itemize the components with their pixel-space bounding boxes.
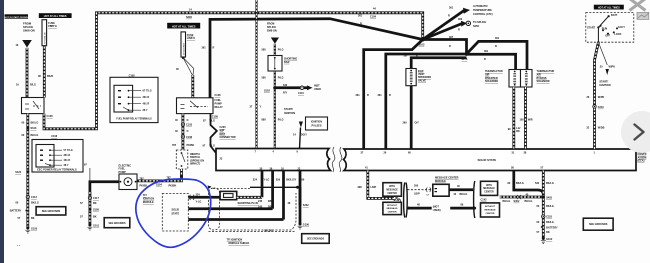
thumbnail icon: [637, 12, 649, 19]
svg-text:787: 787: [172, 144, 177, 147]
svg-text:C117: C117: [93, 197, 99, 200]
IGNITION PULSES box with arrow: [293, 117, 328, 149]
wire 37 Y from top edge to bar: [250, 0, 262, 149]
svg-text:ACCY: ACCY: [618, 26, 625, 29]
WITH MESSAGE CENTER box (left): [383, 183, 402, 197]
thermactor wires to ECA: [508, 87, 533, 149]
svg-text:324: 324: [196, 193, 201, 196]
TFI stub 3: [188, 220, 283, 233]
svg-text:DG/Y: DG/Y: [301, 134, 307, 137]
svg-text:C118: C118: [546, 216, 552, 219]
module output 10 BK/LG: [449, 181, 475, 218]
svg-text:R: R: [495, 45, 497, 48]
svg-text:BK: BK: [31, 217, 35, 220]
fuse link K: [176, 32, 195, 98]
left sidebar strip: [0, 0, 4, 263]
svg-text:361: 361: [484, 50, 489, 53]
svg-text:580: 580: [262, 77, 267, 80]
svg-text:USED: USED: [314, 88, 321, 91]
svg-text:BK: BK: [516, 130, 520, 133]
TFI ignition module: [143, 194, 188, 232]
svg-text:HOT AT ALL TIMES: HOT AT ALL TIMES: [172, 24, 196, 28]
svg-text:BK/LG: BK/LG: [525, 200, 533, 203]
svg-text:STATE: STATE: [171, 213, 179, 216]
thermactor air bypass solenoid: [521, 70, 555, 88]
electric fuel pump: [119, 164, 138, 189]
ECA output 80 BK/LG (elbow): [508, 171, 544, 197]
svg-text:PUMP: PUMP: [215, 103, 223, 106]
svg-text:245: 245: [258, 200, 263, 203]
svg-text:38 Y: 38 Y: [64, 164, 69, 167]
svg-text:640: 640: [283, 84, 288, 87]
svg-text:P/LG: P/LG: [278, 48, 284, 51]
svg-text:206: 206: [414, 185, 419, 188]
svg-text:S402: S402: [514, 200, 520, 203]
svg-text:BK/LG: BK/LG: [460, 193, 468, 196]
svg-text:BK/LG: BK/LG: [31, 122, 39, 125]
svg-text:CENTER: CENTER: [387, 193, 397, 195]
svg-text:SEE GROUNDS: SEE GROUNDS: [109, 223, 126, 225]
svg-text:880: 880: [262, 119, 267, 122]
svg-text:T/LG: T/LG: [209, 120, 215, 123]
svg-text:S108: S108: [93, 208, 99, 211]
ground chain G106: [288, 187, 310, 229]
battery ground chain 60 BK/LG (left): [10, 114, 39, 233]
svg-text:PK/BK: PK/BK: [187, 144, 195, 147]
svg-text:SOLENOID: SOLENOID: [485, 80, 498, 83]
svg-text:S262: S262: [303, 204, 309, 207]
svg-text:LB/P: LB/P: [414, 193, 420, 196]
svg-text:VALVE: VALVE: [418, 79, 426, 82]
svg-text:Y-LG: Y-LG: [264, 179, 270, 182]
connector triangle C: [22, 40, 32, 48]
svg-text:361: 361: [378, 94, 383, 97]
svg-text:SOLID: SOLID: [171, 209, 179, 212]
SEE GROUNDS box 2: [104, 218, 130, 228]
SEE GROUNDS box 1: [36, 207, 66, 215]
svg-text:P/LG: P/LG: [278, 119, 284, 122]
svg-text:W/DB: W/DB: [598, 127, 605, 130]
wire 16 R/LG (triangle to relay): [16, 44, 37, 97]
svg-text:398: 398: [358, 186, 363, 189]
svg-text:WITHOUT: WITHOUT: [485, 206, 496, 208]
svg-text:C108: C108: [47, 115, 54, 118]
svg-text:BATTERY: BATTERY: [546, 226, 558, 229]
svg-text:TFI IGNITION: TFI IGNITION: [227, 239, 243, 242]
thermactor air diverter solenoid: [485, 70, 521, 88]
svg-text:100: 100: [520, 119, 525, 122]
svg-text:LINK O: LINK O: [48, 25, 57, 28]
relay output 40 O (to inertia switch): [172, 114, 194, 150]
svg-text:O/Y: O/Y: [415, 122, 420, 125]
svg-text:367: 367: [449, 36, 454, 39]
svg-text:S102: S102: [264, 90, 270, 93]
svg-text:363: 363: [458, 18, 463, 21]
ignition feed wire W/PK: [587, 27, 616, 149]
svg-text:BATT: BATT: [611, 14, 618, 17]
svg-text:R/Y: R/Y: [283, 92, 288, 95]
close X button: [630, 0, 646, 11]
svg-text:461 R: 461 R: [143, 103, 150, 106]
relay output 87/97 T/LG to module bar: [203, 114, 236, 153]
svg-text:BK/LG: BK/LG: [546, 205, 554, 208]
svg-text:S206: S206: [186, 16, 192, 19]
fuse link O (vertical box with text): [42, 20, 57, 48]
svg-text:SEE GROUNDS: SEE GROUNDS: [307, 239, 324, 241]
label box HOT AT ALL TIMES (middle): [167, 23, 200, 29]
splice dot S123: [26, 170, 29, 173]
svg-text:S403: S403: [546, 196, 552, 199]
svg-text:T/LG: T/LG: [209, 144, 215, 147]
svg-text:245: 245: [258, 206, 263, 209]
svg-text:361: 361: [202, 47, 207, 50]
svg-text:PK/BK: PK/BK: [169, 184, 177, 187]
NOT USED stub with ring C110: [275, 84, 321, 95]
svg-text:R: R: [389, 94, 391, 97]
svg-text:361: 361: [358, 15, 363, 18]
svg-text:361 R: 361 R: [64, 154, 71, 157]
ignition switch dashed box: [586, 13, 634, 43]
svg-text:MESSAGE: MESSAGE: [386, 188, 398, 191]
svg-text:G100: G100: [31, 228, 38, 231]
inertia switch: [176, 150, 204, 169]
svg-text:BK: BK: [546, 231, 550, 234]
svg-text:57 T/LG: 57 T/LG: [64, 149, 73, 152]
EEC power relay box: [22, 98, 54, 119]
SEE GROUNDS box 3: [302, 234, 330, 244]
svg-text:PULSES: PULSES: [311, 124, 321, 127]
junction S103: [419, 38, 425, 47]
ECA processor box: [344, 149, 637, 171]
svg-text:C184: C184: [370, 16, 377, 19]
svg-text:361: 361: [356, 94, 361, 97]
wire 38 BK/O (fuse link O to relay): [38, 47, 53, 98]
svg-text:532: 532: [535, 182, 540, 185]
svg-text:SEE GROUNDS: SEE GROUNDS: [42, 210, 61, 213]
svg-text:S123: S123: [15, 171, 21, 174]
svg-text:SOLID STATE: SOLID STATE: [478, 158, 497, 162]
svg-text:359: 359: [276, 179, 281, 182]
svg-text:WITH: WITH: [486, 185, 492, 187]
svg-text:SEE GROUNDS: SEE GROUNDS: [589, 223, 608, 226]
svg-text:R: R: [360, 23, 362, 26]
shorting bar chain 580 P/LG: [262, 44, 298, 149]
svg-text:LINK K: LINK K: [187, 37, 196, 40]
svg-text:MESSAGE: MESSAGE: [387, 207, 398, 210]
S273 branch: [423, 36, 469, 61]
svg-text:WITHOUT: WITHOUT: [387, 205, 398, 207]
svg-text:G102: G102: [546, 238, 553, 241]
svg-text:BATTERY: BATTERY: [10, 210, 22, 213]
ground G100: [26, 227, 29, 230]
svg-text:CENTER: CENTER: [486, 213, 495, 215]
detail box C108 FUEL PUMP RELAY TERMINALS: [110, 75, 158, 123]
svg-text:R: R: [213, 47, 215, 50]
detail box C108 EEC POWER RELAY TERMINALS: [32, 135, 83, 172]
svg-text:20 GA BLUE: 20 GA BLUE: [44, 32, 47, 45]
svg-text:O: O: [187, 119, 189, 122]
svg-text:W/PK: W/PK: [609, 66, 616, 69]
svg-text:C103: C103: [186, 124, 193, 127]
arrow to AUTOMATIC TEMPERATURE CONTROL: [423, 5, 493, 39]
svg-text:S606-ON: S606-ON: [23, 29, 35, 33]
WITHOUT MESSAGE CENTER box (right): [481, 203, 500, 217]
next arrow circle button: [621, 111, 650, 153]
svg-text:BK/LG: BK/LG: [31, 202, 39, 205]
svg-text:CONNECTOR: CONNECTOR: [220, 136, 236, 139]
EGR vent solenoid valve: [403, 55, 467, 150]
battery ground chain right 532 BK/LG: [535, 171, 558, 244]
svg-text:CONTROL (ATC): CONTROL (ATC): [473, 13, 493, 16]
svg-text:361: 361: [495, 37, 500, 40]
svg-text:C108: C108: [51, 135, 58, 138]
shorting plug run (TFI pin 1): [188, 191, 272, 205]
TFI shield dashed: [208, 186, 300, 246]
svg-text:FUEL: FUEL: [215, 99, 222, 102]
svg-text:WITH: WITH: [389, 186, 395, 188]
blue pen annotation loop: [136, 179, 211, 247]
svg-text:MODULE SHIELD: MODULE SHIELD: [229, 242, 250, 245]
SEE GROUNDS box 4: [583, 218, 613, 230]
svg-text:R/LG: R/LG: [30, 84, 36, 87]
svg-text:MODULE: MODULE: [435, 180, 446, 183]
pump ground chain G101: [80, 164, 119, 231]
processor bar left segment: [216, 149, 331, 171]
fuel pump relay box: [177, 94, 224, 114]
svg-text:DB: DB: [268, 200, 272, 203]
svg-text:CENTER: CENTER: [388, 211, 397, 213]
svg-text:97 T/LG: 97 T/LG: [143, 90, 152, 93]
svg-text:16 GA GREY: 16 GA GREY: [183, 42, 186, 55]
svg-text:BK: BK: [93, 216, 97, 219]
svg-text:BAR: BAR: [284, 61, 290, 64]
svg-text:SOLENOID: SOLENOID: [537, 80, 550, 83]
svg-text:SHORTING PLUG: SHORTING PLUG: [238, 202, 259, 205]
svg-text:START/: START/: [284, 108, 293, 111]
svg-text:R: R: [449, 45, 451, 48]
svg-text:MESSAGE: MESSAGE: [483, 187, 495, 190]
S402 ground row: [500, 195, 544, 203]
svg-text:O: O: [187, 130, 189, 133]
FROM SPLICE EM8-ON triangle: [267, 23, 279, 44]
svg-text:580: 580: [262, 48, 267, 51]
svg-text:HOT AT ALL TIMES: HOT AT ALL TIMES: [598, 7, 620, 10]
svg-text:S104: S104: [156, 184, 162, 187]
tiny pen dots bottom left: [17, 245, 20, 246]
svg-text:RUN: RUN: [602, 28, 608, 31]
svg-text:BK: BK: [93, 202, 97, 205]
pin wires 30/36/16/22 below bar: [253, 171, 305, 220]
svg-text:EM8-ON: EM8-ON: [267, 29, 277, 32]
svg-text:361: 361: [449, 7, 454, 10]
splice dot S616: [26, 127, 29, 130]
wire inertia to pump 787 PK/BK: [137, 169, 183, 187]
svg-text:BK/LG: BK/LG: [31, 134, 39, 137]
label box HOT AT ALL TIMES (right): [594, 5, 624, 10]
svg-text:START: START: [587, 26, 596, 29]
svg-text:HOT AT ALL TIMES: HOT AT ALL TIMES: [44, 15, 67, 18]
svg-text:BK/LG/Y: BK/LG/Y: [286, 179, 296, 182]
svg-text:BK/LG: BK/LG: [546, 182, 554, 185]
svg-text:LOCK: LOCK: [614, 33, 621, 36]
NOT USED row: [407, 204, 476, 213]
svg-text:G101: G101: [93, 225, 100, 228]
svg-text:461 R: 461 R: [64, 159, 71, 162]
svg-text:HOT IN START OR RUN: HOT IN START OR RUN: [5, 16, 29, 19]
svg-text:BK/LG: BK/LG: [546, 221, 554, 224]
svg-text:(NOT: (NOT: [433, 206, 440, 209]
svg-text:C113: C113: [31, 196, 37, 199]
svg-text:W/PK: W/PK: [598, 96, 605, 99]
label box HOT IN START OR RUN: [5, 14, 29, 18]
svg-text:DB: DB: [268, 206, 272, 209]
svg-text:PUMP: PUMP: [119, 171, 127, 174]
ECA feed wires A and B (361 R): [356, 40, 467, 150]
svg-text:Y-LG: Y-LG: [196, 200, 202, 203]
svg-text:BK/LG: BK/LG: [516, 182, 524, 185]
dashed link 206 LB/P to module: [408, 185, 433, 197]
svg-text:S258: S258: [473, 25, 479, 28]
svg-text:P/LG: P/LG: [278, 77, 284, 80]
inline connector halves: [404, 183, 408, 218]
svg-text:OFF: OFF: [605, 35, 610, 38]
svg-text:(ECA): (ECA): [638, 160, 645, 163]
wire 398 LB/P from ECA to message center boxes: [358, 171, 401, 203]
wavy break: [332, 147, 342, 172]
svg-text:R: R: [448, 15, 450, 18]
svg-text:AUTOMATIC: AUTOMATIC: [473, 5, 488, 8]
WITHOUT MESSAGE CENTER box (left): [383, 199, 402, 215]
svg-text:BK/O: BK/O: [47, 75, 53, 78]
svg-text:W/R: W/R: [528, 119, 533, 122]
WITH MESSAGE CENTER box (right): [481, 181, 498, 201]
svg-text:LB/P: LB/P: [371, 186, 377, 189]
svg-text:CENTER: CENTER: [484, 192, 494, 194]
svg-text:38 Y: 38 Y: [143, 109, 148, 112]
label box HOT AT ALL TIMES (left): [39, 13, 72, 18]
thermactor feed wires: [467, 37, 528, 69]
svg-text:IMPACT): IMPACT): [190, 163, 200, 166]
svg-text:RELAY: RELAY: [215, 106, 224, 109]
svg-text:BK/LG: BK/LG: [503, 200, 511, 203]
svg-text:787: 787: [140, 177, 145, 180]
ECA side text: [638, 150, 647, 163]
svg-text:FUEL PUMP RELAY TERMINALS: FUEL PUMP RELAY TERMINALS: [116, 118, 152, 121]
svg-text:G106: G106: [303, 224, 310, 227]
svg-text:C108: C108: [212, 115, 219, 118]
svg-text:TEMPERATURE: TEMPERATURE: [473, 9, 492, 12]
svg-text:C110: C110: [298, 92, 304, 95]
svg-text:TO SPLICE: TO SPLICE: [473, 21, 486, 24]
svg-text:IGNITION: IGNITION: [599, 84, 610, 87]
big loop hatched wire (relay to S103): [44, 8, 423, 129]
svg-text:R: R: [367, 94, 369, 97]
svg-text:C108: C108: [215, 94, 222, 97]
svg-text:260: 260: [403, 122, 408, 125]
svg-text:EEC POWER RELAY TERMINALS: EEC POWER RELAY TERMINALS: [37, 169, 77, 172]
svg-text:C108: C108: [186, 136, 193, 139]
text FROM SPLICE S606-ON: [23, 22, 35, 33]
svg-text:S616: S616: [31, 127, 37, 130]
START/IGNITION text (middle): [284, 108, 295, 115]
svg-text:361 R: 361 R: [143, 96, 150, 99]
TFI stub 2: [188, 206, 272, 209]
message center module: [433, 176, 459, 196]
svg-text:PK/BK: PK/BK: [140, 184, 148, 187]
solid feed wire 361 R (corner to junction S103): [202, 15, 423, 98]
svg-text:MODULE: MODULE: [143, 201, 154, 204]
svg-text:USED): USED): [433, 209, 441, 212]
ring connector TO SPLICE S258: [423, 18, 487, 40]
connector C113: [26, 195, 29, 198]
svg-text:R: R: [458, 29, 460, 32]
svg-text:R: R: [484, 58, 486, 61]
svg-text:IGNITION: IGNITION: [311, 120, 322, 123]
svg-text:324: 324: [253, 179, 258, 182]
svg-text:C210: C210: [598, 106, 605, 109]
svg-text:C142: C142: [394, 199, 401, 202]
svg-text:IGNITION: IGNITION: [284, 112, 295, 115]
svg-text:MESSAGE: MESSAGE: [485, 208, 496, 211]
svg-text:C142: C142: [481, 199, 488, 202]
